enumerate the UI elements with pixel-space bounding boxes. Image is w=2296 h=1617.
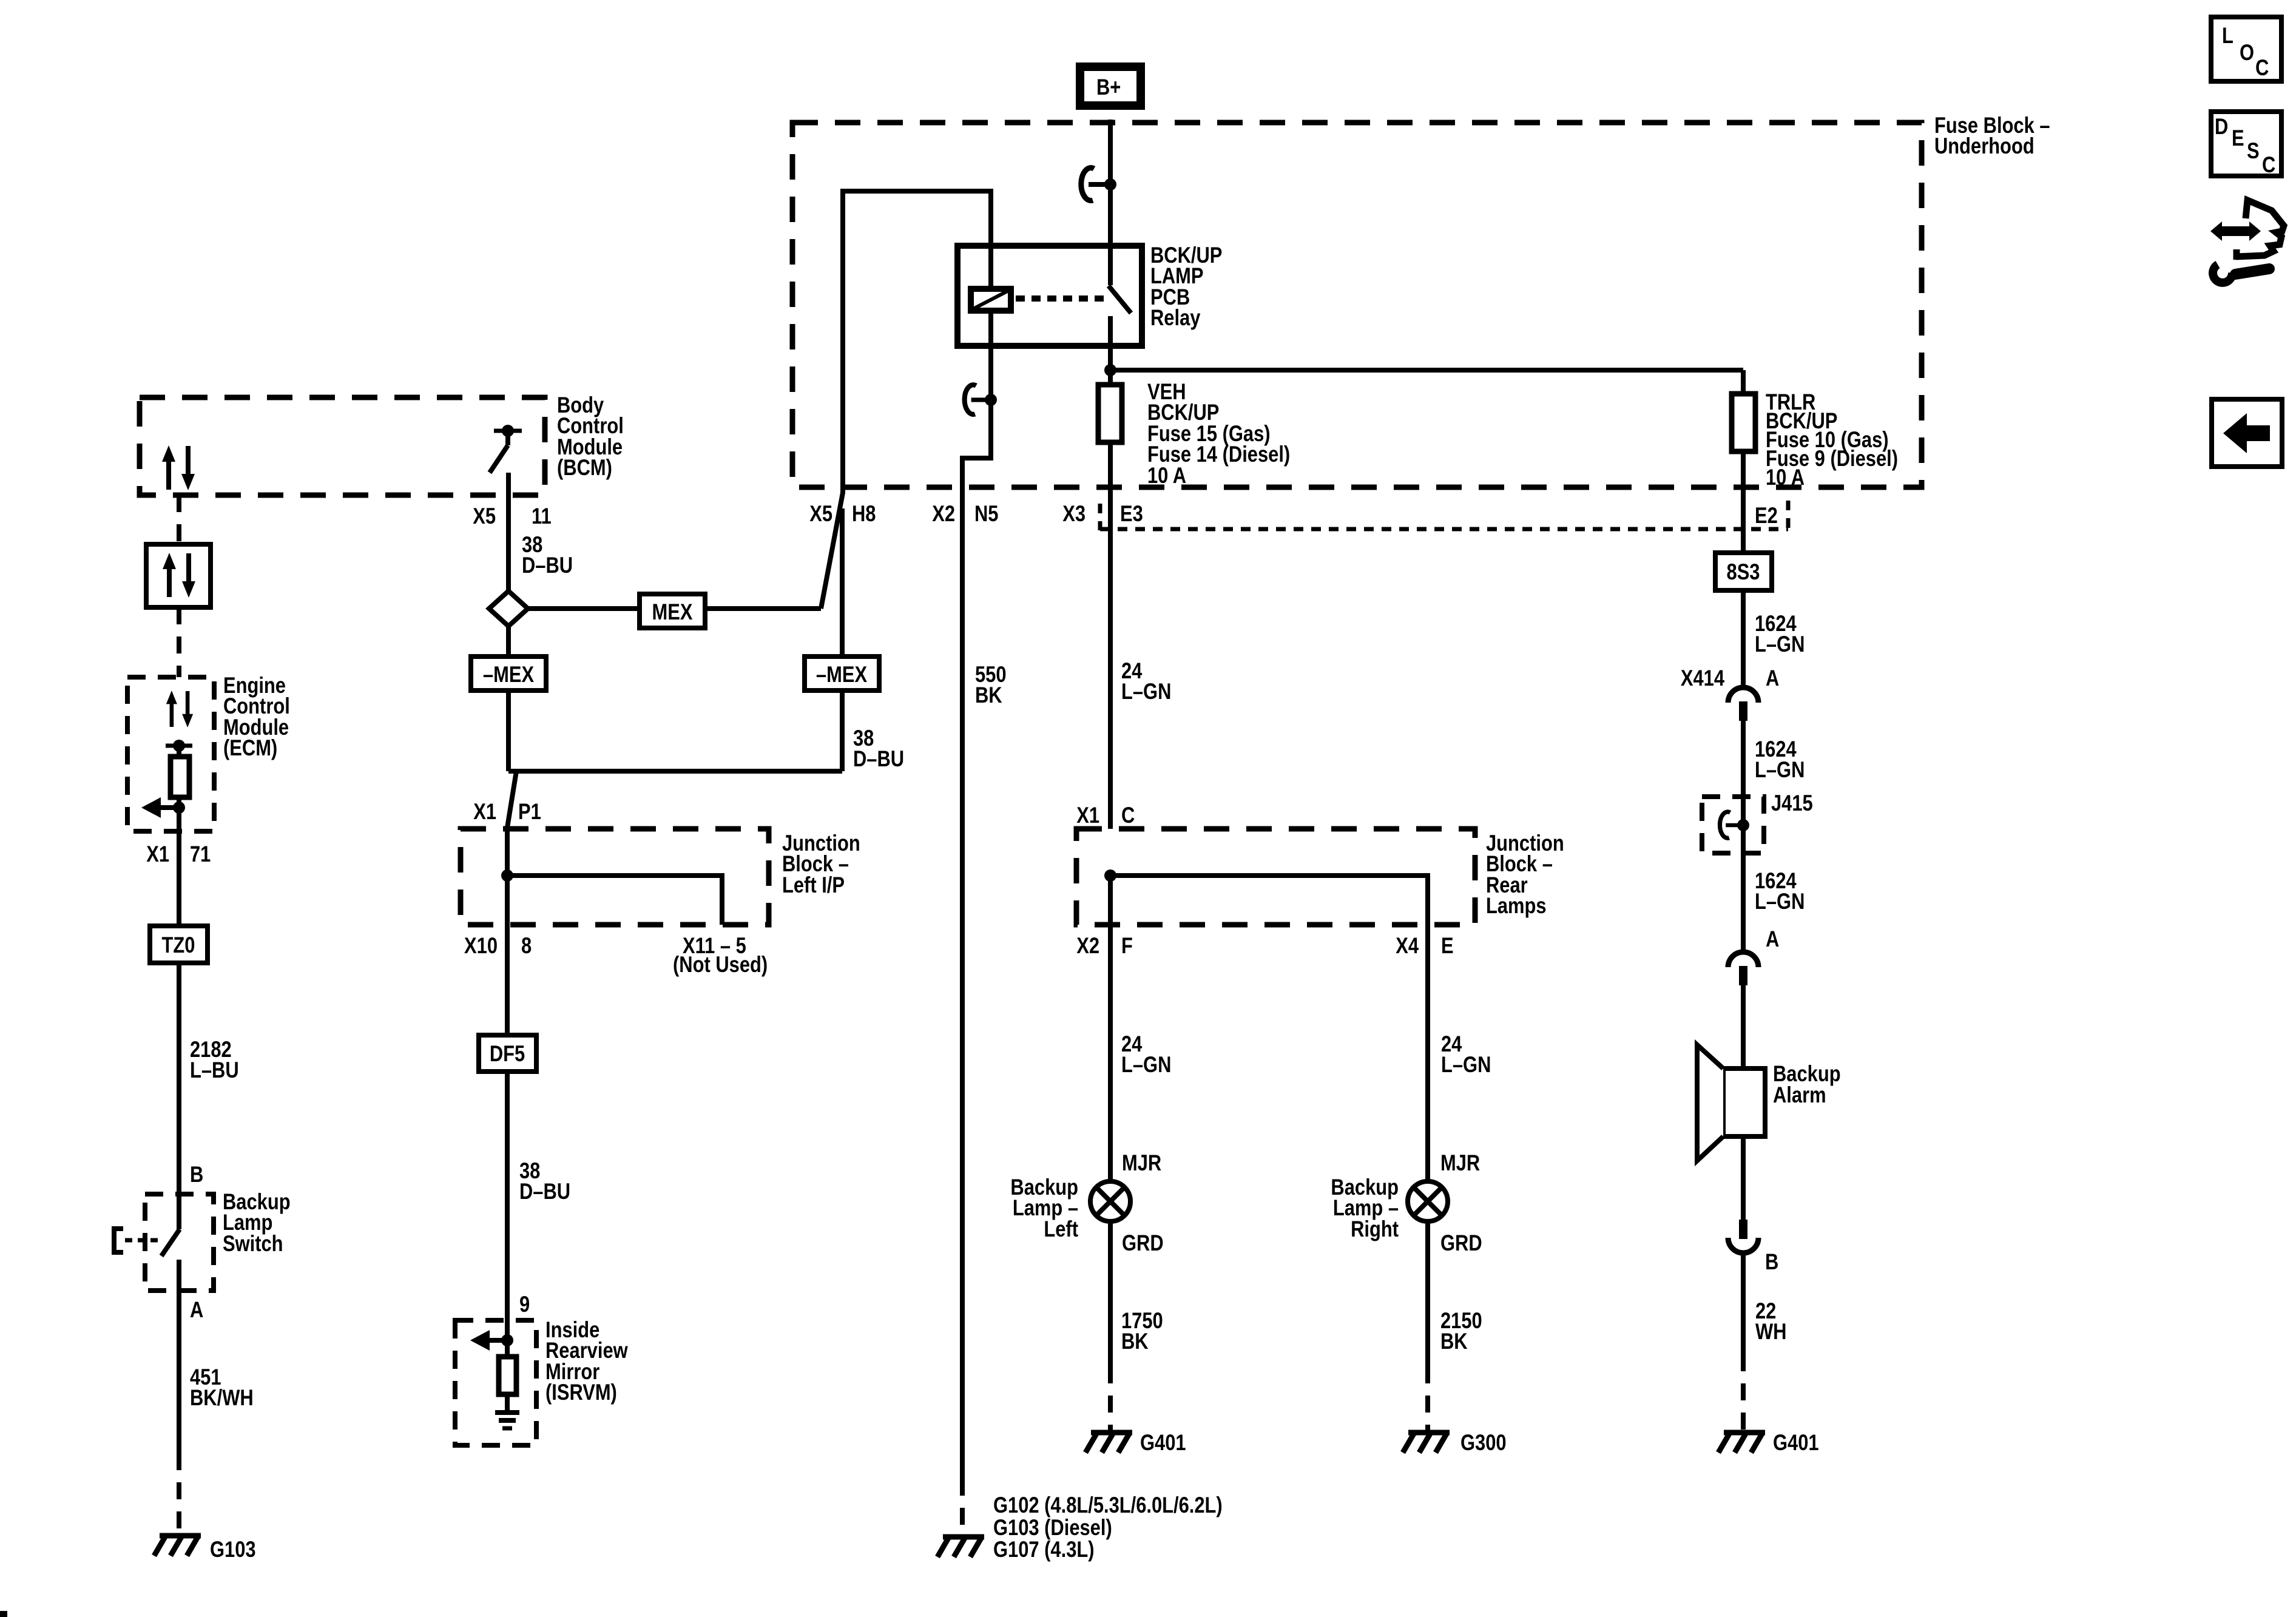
connector B alarm: [1728, 1220, 1758, 1253]
wire dashed to G401 left: [1108, 1366, 1113, 1430]
svg-text:A: A: [1766, 927, 1779, 951]
wire X414 to J415: [1741, 721, 1746, 951]
serial data arrow box: [146, 544, 211, 607]
wire label 1624 L-GN (3): [1755, 868, 1805, 914]
relay label: [1150, 243, 1222, 330]
relay contact arm: [1109, 246, 1131, 370]
backup lamp switch label: [223, 1189, 291, 1256]
svg-text:–MEX: –MEX: [816, 662, 867, 687]
svg-text:GRD: GRD: [1122, 1230, 1164, 1255]
eyelet -MEX box left: [471, 657, 546, 690]
wire inside junction block left: [505, 828, 510, 1035]
svg-text:X414: X414: [1681, 666, 1724, 690]
svg-text:D–BU: D–BU: [519, 1179, 570, 1204]
wire label 1750 BK: [1121, 1308, 1163, 1354]
VEH fuse label: [1147, 379, 1290, 488]
eyelet DF5 box: [479, 1035, 536, 1072]
svg-text:Alarm: Alarm: [1773, 1082, 1826, 1107]
wire merge horizontal: [508, 769, 842, 774]
svg-text:B: B: [1765, 1249, 1778, 1274]
lamp backup left: [1090, 1181, 1130, 1221]
wire stub X11-5: [507, 876, 722, 925]
backup lamp right label: [1331, 1175, 1399, 1241]
wire B+ to relay: [1108, 120, 1113, 246]
wire -MEX left down: [506, 690, 511, 771]
junction block rear label: [1486, 831, 1564, 918]
fuse block label: [1934, 113, 2050, 158]
svg-text:X10: X10: [464, 933, 498, 958]
svg-text:X1: X1: [473, 799, 496, 824]
svg-text:B: B: [190, 1162, 203, 1187]
engine control module dashed box: [127, 677, 214, 831]
svg-text:D: D: [2215, 114, 2228, 139]
svg-text:O: O: [2240, 40, 2254, 65]
svg-text:F: F: [1121, 933, 1133, 958]
splice pack J415 dashed box: [1702, 797, 1764, 853]
ECM label: [223, 673, 290, 760]
ISRVM node: [501, 1334, 513, 1346]
svg-text:A: A: [190, 1297, 203, 1322]
backup lamp switch dashed box: [145, 1194, 214, 1291]
svg-text:X1: X1: [1076, 803, 1099, 828]
lamp backup right: [1408, 1181, 1448, 1221]
svg-text:Switch: Switch: [223, 1231, 283, 1256]
wire connector B down: [1741, 1254, 1746, 1354]
wire branch to right lamp: [1110, 876, 1428, 1181]
svg-text:10 A: 10 A: [1147, 463, 1186, 488]
wire TZ0 to backup lamp switch: [177, 963, 181, 1194]
ISRVM internal arrow: [470, 1330, 507, 1351]
wire dashed to engine grounds: [960, 1479, 965, 1534]
ground G401 (alarm): [1718, 1430, 1819, 1455]
wire TRLR fuse to E2 pin: [1741, 451, 1746, 553]
svg-text:(ISRVM): (ISRVM): [545, 1380, 617, 1405]
svg-text:DF5: DF5: [490, 1041, 525, 1066]
splice clip J415: [1720, 812, 1749, 838]
wire diamond to H8 diagonal: [528, 606, 821, 611]
icon back arrow box: [2212, 399, 2282, 467]
wire switch to G103: [177, 1291, 181, 1453]
svg-text:E3: E3: [1120, 501, 1143, 526]
wire connector to alarm: [1741, 984, 1746, 1068]
svg-text:X3: X3: [1062, 501, 1086, 526]
eyelet MEX box: [640, 594, 705, 628]
svg-text:9: 9: [519, 1292, 530, 1317]
svg-text:X2: X2: [932, 501, 955, 526]
BCM label: [557, 393, 624, 480]
wire serial box to ECM dashed: [177, 607, 181, 677]
svg-text:BK/WH: BK/WH: [190, 1385, 254, 1410]
wire diamond down: [506, 626, 511, 657]
wire label 2150 BK: [1440, 1308, 1482, 1354]
svg-text:Underhood: Underhood: [1934, 133, 2034, 158]
icon wiring diagnosis: [2210, 200, 2284, 283]
wire BCM X5-11 output: [506, 473, 511, 592]
svg-text:X4: X4: [1396, 933, 1419, 958]
wire ECM X1-71 to TZ0: [177, 808, 181, 926]
svg-text:E2: E2: [1755, 503, 1778, 528]
svg-text:Left I/P: Left I/P: [782, 873, 845, 897]
svg-text:D–BU: D–BU: [853, 746, 904, 771]
wire coil ground side jog to N5: [962, 311, 991, 487]
junction block - left I/P dashed box: [461, 829, 769, 925]
wire alarm to connector B: [1741, 1136, 1746, 1220]
wire label 22 WH: [1755, 1298, 1786, 1344]
svg-text:L–BU: L–BU: [190, 1058, 239, 1082]
wire label 550 BK: [975, 662, 1007, 707]
svg-text:Right: Right: [1351, 1217, 1399, 1241]
node junction block left: [501, 869, 513, 882]
svg-text:G107 (4.3L): G107 (4.3L): [993, 1537, 1095, 1562]
backup lamp switch contact: [161, 1194, 180, 1291]
svg-text:BK: BK: [975, 683, 1002, 707]
eyelet 8S3 box: [1715, 553, 1772, 590]
relay K: BCK/UP LAMP PCB Relay box: [957, 246, 1142, 346]
wire label 38 D-BU (lower): [519, 1158, 570, 1204]
splice diamond: [489, 591, 528, 626]
svg-text:71: 71: [190, 842, 211, 866]
svg-text:L–GN: L–GN: [1121, 1052, 1171, 1077]
wire left lamp to ground: [1108, 1221, 1113, 1366]
junction block - rear lamps dashed box: [1076, 829, 1475, 925]
svg-text:Left: Left: [1044, 1217, 1078, 1241]
wire right lamp to ground: [1425, 1221, 1430, 1366]
wire label 24 L-GN (E3): [1121, 658, 1171, 704]
power feed B+ terminal: [1080, 67, 1141, 106]
wire relay output to VEH fuse: [1108, 370, 1113, 385]
svg-text:L–GN: L–GN: [1121, 679, 1171, 704]
wire label 1624 L-GN (2): [1755, 737, 1805, 782]
node: relay output junction: [1104, 364, 1116, 376]
svg-text:L–GN: L–GN: [1755, 632, 1805, 657]
svg-text:(ECM): (ECM): [223, 735, 277, 760]
relay coil-contact dashed link: [1016, 295, 1106, 302]
svg-text:MJR: MJR: [1440, 1150, 1480, 1175]
svg-text:C: C: [2262, 152, 2275, 177]
svg-text:X1: X1: [146, 842, 169, 866]
ground G102/G103/G107: [937, 1493, 1223, 1562]
svg-text:WH: WH: [1755, 1319, 1786, 1344]
wire coil feed from H8 pin: [843, 191, 991, 487]
ISRVM label: [545, 1317, 628, 1405]
connector face dotted strip X3-E2: [1100, 501, 1788, 530]
svg-text:–MEX: –MEX: [483, 662, 534, 687]
BCM internal switch: [490, 425, 522, 473]
wire left lamp feed: [1108, 876, 1113, 1181]
svg-text:L–GN: L–GN: [1441, 1052, 1491, 1077]
icon DESC box: [2211, 112, 2281, 178]
backup lamp left label: [1010, 1175, 1078, 1241]
svg-text:E: E: [1441, 933, 1454, 958]
svg-text:Relay: Relay: [1150, 305, 1200, 330]
wire label 2182 L-BU: [190, 1037, 239, 1082]
ISRVM resistor: [499, 1340, 516, 1411]
fuse VEH BCK/UP: [1098, 385, 1122, 442]
connector X414: [1728, 687, 1758, 721]
wire TRLR branch down: [1741, 370, 1746, 394]
svg-text:Lamps: Lamps: [1486, 893, 1547, 918]
ground G103: [154, 1536, 256, 1562]
svg-text:(Not Used): (Not Used): [673, 952, 768, 977]
splice clip on B+ wire: [1081, 168, 1116, 201]
splice clip on coil ground wire: [965, 385, 997, 414]
fuse TRLR BCK/UP: [1732, 394, 1755, 451]
svg-text:J415: J415: [1771, 791, 1813, 815]
svg-text:X2: X2: [1076, 933, 1099, 958]
wire H8 pin to -MEX: [840, 508, 845, 657]
svg-text:G401: G401: [1140, 1430, 1186, 1455]
page corner mark: [0, 1611, 7, 1617]
relay coil: [971, 289, 1011, 311]
svg-text:P1: P1: [518, 799, 541, 824]
wire label 24 L-GN (right lamp): [1441, 1031, 1491, 1077]
svg-text:G102 (4.8L/5.3L/6.0L/6.2L): G102 (4.8L/5.3L/6.0L/6.2L): [993, 1493, 1223, 1517]
wire -MEX right down to merge: [840, 690, 845, 771]
wire jog to X1-P1: [507, 771, 516, 828]
wire label 24 L-GN (left lamp): [1121, 1031, 1171, 1077]
wire 8S3 to X414: [1741, 590, 1746, 687]
eyelet TZ0 box: [150, 926, 208, 963]
wire label 38 D-BU (right): [853, 726, 904, 771]
node rear junction: [1104, 869, 1116, 882]
ISRVM earth ground: [495, 1413, 519, 1428]
svg-text:8: 8: [521, 933, 532, 958]
svg-text:BK: BK: [1440, 1329, 1468, 1354]
wire H8 pin diagonal: [821, 487, 843, 609]
svg-text:X5: X5: [473, 504, 496, 528]
svg-text:S: S: [2247, 138, 2260, 163]
eyelet -MEX box right: [805, 657, 879, 690]
ground G401 (left lamp): [1086, 1430, 1186, 1455]
svg-text:8S3: 8S3: [1727, 559, 1760, 584]
svg-text:B+: B+: [1096, 75, 1121, 100]
svg-text:H8: H8: [852, 501, 876, 526]
wire relay output to TRLR fuse: [1110, 368, 1743, 373]
wire label 1624 L-GN (1): [1755, 611, 1805, 657]
svg-text:L–GN: L–GN: [1755, 889, 1805, 914]
svg-text:C: C: [2255, 55, 2269, 80]
wire DF5 to ISRVM: [505, 1072, 510, 1340]
inside rearview mirror dashed box: [455, 1320, 536, 1445]
svg-text:TZ0: TZ0: [162, 933, 195, 957]
backup alarm label: [1773, 1061, 1841, 1107]
backup alarm speaker: [1697, 1045, 1765, 1161]
fuse block - underhood dashed box: [792, 123, 1922, 487]
TRLR fuse label: [1766, 390, 1898, 490]
svg-text:G103: G103: [210, 1537, 256, 1562]
wire 550 BK N5 to ground: [960, 487, 965, 1479]
icon LOC box: [2211, 17, 2281, 81]
svg-text:MJR: MJR: [1122, 1150, 1161, 1175]
svg-text:C: C: [1121, 803, 1135, 828]
svg-text:BK: BK: [1121, 1329, 1149, 1354]
connector A alarm: [1728, 952, 1758, 985]
svg-text:(BCM): (BCM): [557, 455, 612, 480]
switch actuator bracket: [114, 1229, 160, 1252]
ECM internal node: [166, 740, 192, 752]
ECM output arrow: [141, 797, 185, 818]
ECM serial arrows: [166, 690, 193, 727]
pin label X11-5 not used: [673, 933, 768, 977]
svg-text:11: 11: [532, 504, 552, 528]
wire label 451 BK/WH: [190, 1365, 254, 1410]
svg-text:L–GN: L–GN: [1755, 757, 1805, 782]
svg-text:D–BU: D–BU: [522, 553, 573, 578]
wire label 38 D-BU: [522, 532, 573, 578]
svg-text:A: A: [1766, 666, 1779, 690]
wire BCM to serial box dashed: [177, 495, 181, 544]
svg-text:N5: N5: [974, 501, 999, 526]
junction block left label: [782, 831, 860, 897]
svg-text:X5: X5: [809, 501, 832, 526]
svg-text:10 A: 10 A: [1766, 465, 1805, 490]
svg-text:L: L: [2222, 23, 2234, 48]
svg-text:E: E: [2232, 126, 2244, 150]
body control module dashed box: [140, 397, 545, 495]
BCM serial data arrows: [162, 445, 195, 490]
svg-text:MEX: MEX: [652, 599, 693, 624]
ECM pull-up resistor: [171, 746, 189, 808]
svg-text:GRD: GRD: [1440, 1230, 1482, 1255]
wire dashed to G401 right: [1741, 1354, 1746, 1430]
wire dashed to G103: [177, 1453, 181, 1533]
wire dashed to G300: [1425, 1366, 1430, 1430]
wire VEH fuse to E3 pin: [1108, 442, 1113, 829]
svg-text:G401: G401: [1773, 1430, 1819, 1455]
ground G300: [1403, 1430, 1507, 1455]
svg-text:G300: G300: [1460, 1430, 1507, 1455]
